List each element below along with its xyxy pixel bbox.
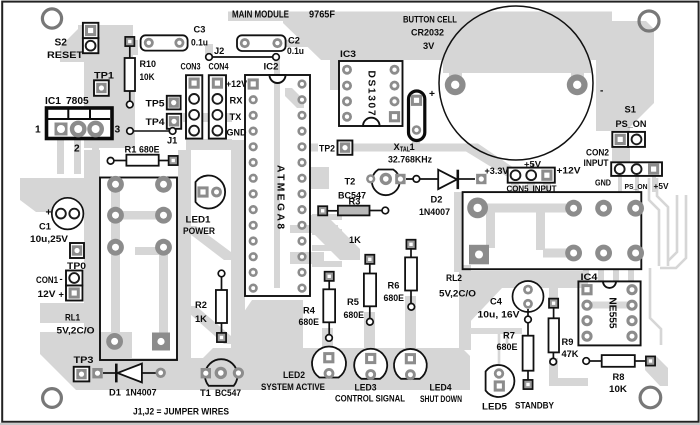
svg-text:S2: S2	[55, 38, 68, 49]
svg-text:INPUT: INPUT	[584, 158, 609, 168]
svg-text:STANDBY: STANDBY	[515, 400, 555, 410]
svg-text:LED5: LED5	[482, 401, 507, 411]
trace CON5 stub 1	[511, 182, 519, 192]
trace under R7 row	[470, 328, 522, 334]
trace right of RL2 1	[649, 178, 659, 266]
svg-text:TP4: TP4	[146, 117, 166, 127]
test point TP3	[74, 355, 94, 382]
svg-text:SYSTEM ACTIVE: SYSTEM ACTIVE	[261, 382, 325, 392]
switch S1	[612, 105, 646, 147]
trace bottom band LEDs	[88, 348, 470, 390]
svg-text:-: -	[600, 86, 603, 97]
svg-text:5V,2C/O: 5V,2C/O	[57, 326, 95, 336]
trace J2 to IC2	[274, 57, 280, 82]
mounting hole bottom-left	[43, 389, 62, 408]
trace top pour band	[228, 12, 612, 22]
test point TP4	[146, 114, 182, 129]
trace corner triangle below RL2	[461, 288, 502, 325]
svg-text:32.768KHz: 32.768KHz	[388, 155, 432, 165]
svg-text:R8: R8	[613, 372, 625, 382]
svg-text:CON2: CON2	[586, 148, 609, 158]
capacitor C2	[237, 35, 304, 56]
svg-text:IC2: IC2	[264, 62, 279, 72]
trace TP2 to battery row	[337, 144, 470, 152]
svg-text:7805: 7805	[66, 96, 89, 107]
svg-text:T1: T1	[200, 388, 211, 398]
svg-text:LED3: LED3	[355, 383, 377, 393]
svg-text:1: 1	[35, 125, 41, 136]
svg-text:R7: R7	[503, 330, 515, 340]
svg-text:CONTROL SIGNAL: CONTROL SIGNAL	[335, 393, 405, 403]
svg-text:+5V: +5V	[654, 182, 670, 191]
svg-text:10u,25V: 10u,25V	[30, 234, 69, 244]
trace CON2 stub 3	[652, 176, 656, 192]
svg-text:680E: 680E	[497, 342, 518, 352]
trace S2 region pour	[60, 25, 133, 62]
trace IC2 right comb 4	[312, 261, 342, 267]
svg-text:0.1u: 0.1u	[191, 38, 208, 48]
svg-text:TP1: TP1	[94, 71, 114, 81]
mounting hole bottom-right	[640, 387, 661, 408]
svg-text:+: +	[46, 208, 52, 219]
header CON2	[584, 148, 670, 192]
trace CON5 stub 2	[527, 182, 535, 192]
transistor T1 BC547	[200, 359, 244, 398]
RTC IC3 DS1307	[339, 49, 403, 126]
svg-text:+: +	[59, 290, 65, 300]
wire T2 to D2	[406, 178, 438, 180]
trace TP2 stub	[311, 144, 318, 152]
svg-text:C4: C4	[490, 297, 503, 307]
svg-text:RESET: RESET	[47, 50, 83, 60]
trace below CON3 CON4	[186, 139, 232, 150]
trace right of RL2 3	[668, 195, 677, 261]
svg-text:10K: 10K	[140, 72, 155, 82]
svg-text:S1: S1	[625, 105, 636, 115]
LED2	[261, 346, 346, 392]
svg-text:PS_ON: PS_ON	[625, 184, 648, 191]
jumper J1	[127, 128, 178, 146]
trace battery link band	[443, 60, 591, 73]
svg-text:D2: D2	[431, 195, 443, 205]
svg-text:680E: 680E	[344, 310, 365, 320]
trace battery area pour	[283, 21, 612, 60]
svg-text:R2: R2	[195, 300, 207, 310]
trace CON2 stub 2	[635, 176, 639, 192]
svg-text:680E: 680E	[299, 317, 320, 327]
trace J2 left stub	[205, 44, 213, 57]
trace IC2 right comb 3	[312, 245, 342, 251]
svg-text:5V,2C/O: 5V,2C/O	[439, 289, 476, 299]
svg-text:LED2: LED2	[283, 370, 305, 380]
svg-text:+3.3V: +3.3V	[485, 166, 510, 176]
test point TP2	[319, 141, 352, 155]
capacitor C1	[30, 198, 83, 244]
svg-text:1K: 1K	[349, 235, 361, 245]
trace T2 region	[310, 167, 329, 189]
trace IC2 right comb 6	[290, 252, 324, 264]
trace diagonal to CON5	[466, 144, 514, 177]
svg-text:SHUT DOWN: SHUT DOWN	[420, 394, 462, 404]
svg-text:TP0: TP0	[67, 261, 86, 271]
svg-text:-: -	[60, 274, 63, 284]
svg-text:BC547: BC547	[215, 388, 241, 398]
trace C3 feed	[128, 40, 138, 55]
LED1	[183, 175, 225, 236]
header CON3	[181, 62, 203, 139]
trace IC2 notch to pin diagonal	[285, 88, 304, 108]
mounting hole top-right	[639, 11, 659, 31]
trace left of RL1 column	[84, 150, 100, 378]
resistor R2	[195, 270, 227, 342]
svg-text:GND: GND	[595, 179, 611, 188]
svg-text:2: 2	[74, 144, 80, 155]
svg-text:R9: R9	[562, 337, 574, 347]
svg-text:1K: 1K	[195, 314, 207, 324]
header CON5	[485, 160, 582, 194]
trace band above C1	[20, 178, 100, 212]
svg-text:C1: C1	[39, 222, 51, 232]
resistor R10	[125, 37, 156, 108]
trace pour below IC2	[233, 300, 303, 390]
svg-text:C3: C3	[194, 25, 206, 35]
capacitor C4	[478, 281, 544, 320]
svg-text:PS_ON: PS_ON	[616, 119, 647, 129]
svg-text:IC1: IC1	[45, 96, 61, 107]
svg-text:1N4007: 1N4007	[126, 387, 157, 397]
diode D1 1N4007	[92, 364, 166, 398]
resistor R6	[384, 240, 418, 310]
svg-text:DS1307: DS1307	[366, 71, 377, 116]
svg-text:D1: D1	[109, 387, 121, 397]
svg-text:NE555: NE555	[607, 297, 618, 328]
crystal XTAL1	[388, 91, 432, 165]
trace IC2 inner vertical	[274, 82, 280, 288]
trace R9 bottom to R8	[549, 358, 588, 386]
svg-text:POWER: POWER	[183, 226, 215, 236]
svg-text:C2: C2	[288, 36, 300, 46]
trace IC3 left column	[330, 40, 339, 90]
trace right of RL1 column	[178, 150, 191, 388]
node between T2 and D2	[413, 176, 420, 183]
trace R4 column	[322, 328, 333, 352]
svg-text:R6: R6	[388, 281, 400, 291]
svg-text:9765F: 9765F	[309, 10, 335, 21]
svg-text:10K: 10K	[609, 384, 627, 394]
svg-text:RL1: RL1	[65, 312, 80, 322]
svg-text:CON1: CON1	[36, 275, 58, 285]
svg-text:ATMEGA8: ATMEGA8	[275, 165, 286, 229]
trace bottom-left pour	[40, 332, 132, 390]
svg-text:GND: GND	[227, 128, 247, 138]
trace CON2 stub 1	[618, 176, 622, 192]
svg-text:TP3: TP3	[74, 355, 94, 365]
svg-text:+12V: +12V	[557, 165, 582, 175]
trace IC2 right comb 5	[290, 225, 338, 233]
svg-text:1: 1	[410, 142, 415, 152]
trace R9 top stub	[549, 288, 558, 302]
test point TP5	[146, 96, 181, 110]
resistor R7	[497, 309, 534, 389]
test point TP1	[94, 71, 114, 96]
relay RL1	[57, 176, 178, 360]
svg-text:T2: T2	[345, 176, 356, 186]
svg-text:J2: J2	[214, 46, 224, 56]
resistor R8	[583, 355, 655, 394]
header CON1	[36, 271, 83, 301]
trace R5 column	[364, 312, 375, 352]
svg-text:12V: 12V	[38, 289, 57, 299]
trace RL2 bottom band	[466, 271, 588, 288]
trace battery pad stub +	[449, 71, 462, 82]
trace below R3 diagonal	[310, 215, 360, 260]
trace R8 right diagonal	[645, 356, 668, 386]
svg-text:IC3: IC3	[340, 49, 356, 59]
svg-text:CON4: CON4	[209, 62, 230, 72]
trace CON5 stub 3	[543, 182, 551, 192]
capacitor C3	[141, 25, 209, 51]
trace right of RL2 2	[657, 178, 668, 266]
trace right of RL2 4	[660, 195, 686, 268]
trace left pour TP1 region	[84, 62, 135, 148]
test point TP0	[67, 243, 86, 271]
svg-text:RL2: RL2	[446, 273, 462, 283]
trace battery pad stub -	[571, 71, 584, 82]
node D2 to CON5	[476, 174, 486, 184]
LED3	[335, 349, 405, 404]
regulator IC1 7805	[35, 96, 121, 155]
svg-text:TP2: TP2	[319, 143, 335, 153]
relay RL2	[439, 192, 644, 298]
trace below IC1 pad2	[74, 140, 81, 174]
svg-text:R5: R5	[347, 297, 359, 307]
svg-text:680E: 680E	[384, 293, 405, 303]
battery BUTTON CELL CR2032	[403, 6, 603, 160]
switch S2	[47, 23, 98, 60]
resistor R1	[107, 145, 177, 166]
trace TP4 row band	[183, 113, 232, 122]
resistor R9	[549, 299, 579, 365]
trace C4 left column	[459, 265, 471, 350]
svg-text:CR2032: CR2032	[411, 27, 444, 37]
svg-text:3: 3	[115, 125, 121, 136]
trace XTAL bottom stub	[412, 137, 420, 149]
trace RL2 left column	[454, 192, 463, 272]
svg-text:10u, 16V: 10u, 16V	[478, 310, 521, 320]
LED4	[394, 349, 462, 404]
svg-text:1N4007: 1N4007	[419, 207, 450, 217]
svg-text:J1: J1	[167, 135, 177, 145]
svg-text:+: +	[429, 89, 435, 100]
svg-text:J1,J2 = JUMPER WIRES: J1,J2 = JUMPER WIRES	[133, 407, 229, 417]
svg-text:680E: 680E	[139, 145, 160, 155]
trace LED5 to R7 link	[499, 330, 507, 366]
svg-text:R10: R10	[140, 59, 157, 69]
svg-text:R1: R1	[125, 145, 137, 155]
svg-text:R4: R4	[303, 305, 316, 315]
svg-text:TX: TX	[230, 112, 243, 122]
svg-text:TP5: TP5	[146, 98, 165, 108]
svg-text:MAIN MODULE: MAIN MODULE	[232, 10, 289, 21]
svg-text:47K: 47K	[562, 349, 579, 359]
svg-text:LED4: LED4	[430, 383, 453, 393]
timer IC4 NE555	[578, 268, 661, 345]
svg-text:LED1: LED1	[186, 215, 211, 225]
trace right edge pour	[596, 21, 654, 162]
svg-text:BUTTON CELL: BUTTON CELL	[403, 14, 457, 24]
trace below IC1 pad3	[92, 140, 99, 184]
mounting hole top-left	[42, 9, 61, 28]
jumper J2	[206, 46, 280, 61]
trace R6 column	[405, 296, 416, 352]
trace C2 right band	[286, 40, 332, 47]
svg-text:3V: 3V	[423, 41, 435, 51]
resistor R3	[318, 197, 389, 216]
resistor R4	[299, 272, 336, 342]
header CON4	[209, 62, 248, 139]
trace CON1 to RL1 band	[40, 303, 98, 323]
trace IC2 right comb 1	[312, 214, 342, 220]
resistor R5	[344, 255, 377, 325]
trace IC2 right comb 2	[312, 229, 342, 235]
trace IC4 top stubs	[583, 270, 589, 282]
svg-text:0.1u: 0.1u	[287, 46, 304, 56]
svg-text:CON3: CON3	[181, 62, 201, 72]
trace below IC1 pad1	[57, 140, 64, 174]
diode D2 1N4007	[419, 170, 475, 217]
microcontroller IC2 ATMEGA8	[245, 62, 310, 296]
trace left of IC2 column	[231, 140, 245, 388]
transistor T2 BC547	[338, 170, 406, 201]
LED5	[482, 365, 555, 411]
svg-text:RX: RX	[230, 96, 244, 106]
